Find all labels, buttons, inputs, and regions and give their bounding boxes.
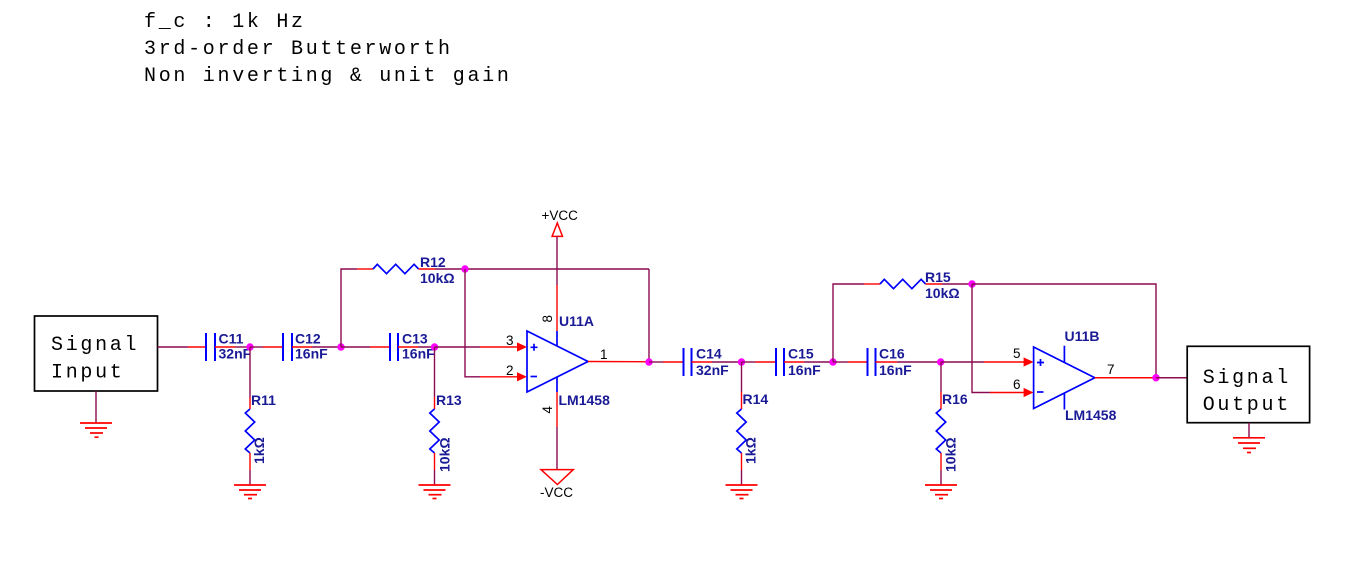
pin 7 output lead: [1095, 377, 1156, 379]
pin 6 lead: [990, 392, 1025, 394]
wire R13 to ground: [434, 470, 436, 485]
node C11/R11 junction: [246, 343, 253, 350]
svg-text:10kΩ: 10kΩ: [943, 437, 959, 472]
pin 1 output lead: [588, 361, 649, 363]
svg-text:6: 6: [1013, 377, 1021, 392]
pin 8 lead: [556, 285, 558, 331]
pin 5 lead: [984, 361, 1025, 363]
node feedback / pin6 junction: [968, 280, 975, 287]
ground (Signal Output): [1233, 438, 1265, 453]
resistor R12: [357, 264, 435, 273]
ground (R16): [925, 485, 957, 499]
title text block: [144, 11, 512, 88]
wire +VCC to pin 8: [556, 236, 558, 285]
svg-text:LM1458: LM1458: [1065, 407, 1117, 423]
wire node to R16: [940, 362, 942, 392]
svg-text:16nF: 16nF: [879, 362, 912, 378]
resistor R14: [737, 392, 746, 470]
capacitor C13: [370, 333, 418, 361]
wire output node to C14: [649, 361, 663, 363]
svg-text:3rd-order Butterworth: 3rd-order Butterworth: [144, 38, 453, 61]
svg-text:5: 5: [1013, 346, 1021, 361]
wire C16 to node: [897, 361, 941, 363]
pin 2 lead: [480, 376, 518, 378]
wire feedback top to output corner: [972, 284, 1156, 378]
svg-text:U11B: U11B: [1065, 328, 1100, 344]
svg-text:LM1458: LM1458: [559, 392, 611, 408]
svg-text:Signal: Signal: [1203, 367, 1291, 390]
wire C14 to node: [712, 361, 742, 363]
wire C15 to node: [804, 361, 833, 363]
svg-text:Output: Output: [1203, 394, 1291, 417]
wire C13 lead-in: [341, 346, 370, 348]
resistor R15: [864, 279, 942, 288]
ground (R14): [726, 485, 758, 499]
node C16/R16 junction: [937, 358, 944, 365]
svg-text:R12: R12: [420, 254, 446, 270]
svg-text:C12: C12: [295, 331, 321, 347]
svg-text:2: 2: [506, 363, 514, 378]
resistor R16: [936, 392, 945, 470]
wire pin 6 drop: [972, 284, 990, 393]
ground (R13): [419, 485, 451, 499]
wire R12 to feedback corner: [435, 268, 649, 270]
wire R16 to ground: [940, 470, 942, 485]
svg-text:3: 3: [506, 333, 514, 348]
node C15/C16 junction: [829, 358, 836, 365]
wire C16 lead-in: [833, 361, 848, 363]
Signal Input box: [35, 316, 158, 391]
wire Signal Output to ground: [1248, 423, 1250, 438]
wire node to R14: [741, 362, 743, 392]
wire R15 to node: [942, 283, 972, 285]
svg-text:R11: R11: [251, 392, 276, 408]
wire node to R13: [434, 347, 436, 397]
svg-text:C13: C13: [402, 331, 428, 347]
pin 2 arrowhead: [517, 372, 527, 381]
wire C16 node to op-amp pin 5: [941, 361, 984, 363]
svg-text:U11A: U11A: [559, 313, 594, 329]
wire feedback down to output: [648, 269, 650, 362]
wire pin 4 to -VCC: [556, 427, 558, 470]
svg-text:C15: C15: [788, 346, 814, 362]
wire from Signal Input to ground: [95, 391, 97, 423]
wire C13 to node: [418, 346, 435, 348]
pin 6 arrowhead: [1024, 388, 1034, 397]
node C12/C13 junction: [337, 343, 344, 350]
resistor R13: [430, 397, 439, 470]
wire R11 to ground: [249, 470, 251, 485]
Signal Output box: [1187, 346, 1309, 422]
svg-text:R13: R13: [436, 392, 462, 408]
wire output node to Signal Output: [1156, 377, 1187, 379]
svg-text:32nF: 32nF: [696, 362, 729, 378]
svg-text:8: 8: [540, 315, 555, 323]
svg-text:+VCC: +VCC: [542, 208, 579, 223]
svg-text:R14: R14: [743, 391, 769, 407]
svg-text:7: 7: [1107, 362, 1115, 377]
svg-text:1kΩ: 1kΩ: [743, 437, 759, 464]
svg-text:16nF: 16nF: [788, 362, 821, 378]
svg-text:16nF: 16nF: [295, 346, 328, 362]
svg-text:1kΩ: 1kΩ: [251, 437, 267, 464]
capacitor C12: [263, 333, 312, 361]
-VCC power symbol: [540, 470, 573, 500]
svg-text:1: 1: [600, 347, 608, 362]
node U11B output junction: [1152, 374, 1159, 381]
node U11A output junction: [645, 358, 652, 365]
svg-text:R16: R16: [942, 391, 968, 407]
pin 4 lead: [556, 392, 558, 427]
pin 3 lead: [480, 346, 518, 348]
wire inverting input drop: [465, 269, 480, 377]
svg-text:4: 4: [540, 406, 555, 414]
op-amp U11B: [1034, 346, 1095, 410]
op-amp U11A: [527, 331, 588, 392]
wire C12 to node: [312, 346, 341, 348]
wire feedback riser (node to R15): [833, 284, 864, 362]
wire R14 node to C15: [742, 361, 756, 363]
svg-text:10kΩ: 10kΩ: [437, 437, 453, 472]
svg-text:C11: C11: [219, 331, 244, 347]
ground (R11): [234, 485, 266, 499]
+VCC power symbol: [542, 208, 579, 236]
ground (Signal Input): [80, 423, 112, 437]
capacitor C14: [663, 348, 712, 376]
wire feedback riser left (node to R12): [341, 269, 357, 347]
wire R14 to ground: [741, 470, 743, 485]
capacitor C16: [848, 348, 897, 376]
pin 3 arrowhead: [517, 342, 527, 351]
svg-text:Input: Input: [51, 362, 125, 385]
svg-text:10kΩ: 10kΩ: [420, 270, 455, 286]
wire Signal Input to C11: [158, 346, 189, 348]
svg-text:Non inverting & unit gain: Non inverting & unit gain: [144, 65, 512, 88]
node feedback / inverting input junction: [461, 265, 468, 272]
svg-text:R15: R15: [925, 269, 951, 285]
wire C13 node to op-amp pin 3: [435, 346, 481, 348]
capacitor C11: [188, 333, 250, 361]
svg-text:f_c : 1k Hz: f_c : 1k Hz: [144, 11, 306, 34]
svg-text:C14: C14: [696, 346, 722, 362]
svg-text:Signal: Signal: [51, 334, 139, 357]
pin 5 arrowhead: [1024, 357, 1034, 366]
svg-text:10kΩ: 10kΩ: [925, 285, 960, 301]
node C13/R13 junction: [431, 343, 438, 350]
capacitor C15: [756, 348, 805, 376]
wire C11 node to C12: [250, 346, 263, 348]
node C14/R14 junction: [738, 358, 745, 365]
wire node to R11: [249, 347, 251, 397]
resistor R11: [245, 397, 254, 470]
svg-text:16nF: 16nF: [402, 346, 435, 362]
svg-text:C16: C16: [879, 346, 905, 362]
svg-text:-VCC: -VCC: [540, 485, 573, 500]
